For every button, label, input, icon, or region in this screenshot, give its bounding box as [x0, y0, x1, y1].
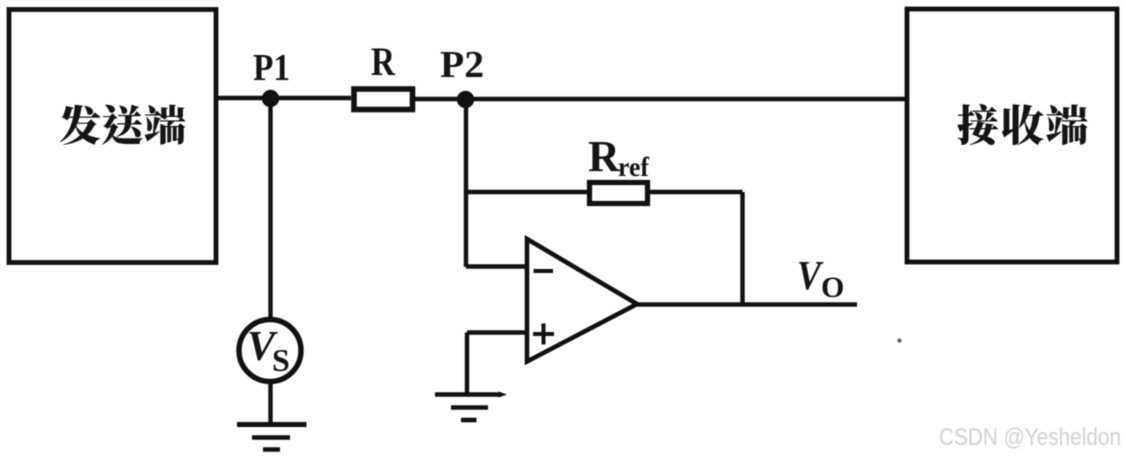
svg-text:R: R [371, 39, 396, 84]
svg-text:P2: P2 [440, 44, 484, 86]
svg-text:ref: ref [618, 152, 650, 182]
svg-text:O: O [821, 271, 844, 304]
svg-text:P1: P1 [253, 47, 290, 89]
svg-text:CSDN @Yesheldon: CSDN @Yesheldon [939, 424, 1121, 451]
svg-text:S: S [272, 342, 290, 378]
svg-text:R: R [588, 132, 621, 181]
